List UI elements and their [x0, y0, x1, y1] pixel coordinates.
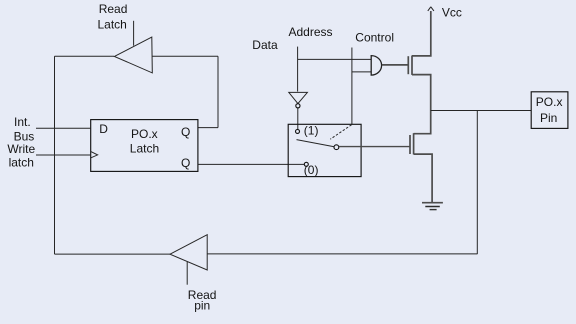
svg-text:latch: latch: [9, 156, 34, 170]
svg-text:Address: Address: [289, 25, 333, 39]
svg-text:Latch: Latch: [130, 142, 159, 156]
svg-text:Vcc: Vcc: [442, 5, 462, 19]
svg-text:(1): (1): [304, 124, 319, 138]
svg-text:Write: Write: [7, 142, 35, 156]
svg-text:PO.x: PO.x: [131, 127, 158, 141]
svg-text:pin: pin: [194, 299, 210, 313]
svg-text:Q: Q: [181, 156, 190, 170]
svg-text:Latch: Latch: [98, 18, 127, 32]
svg-text:Read: Read: [99, 2, 128, 16]
svg-text:Q: Q: [181, 125, 190, 139]
svg-text:PO.x: PO.x: [536, 95, 563, 109]
svg-text:Control: Control: [355, 30, 394, 44]
svg-text:D: D: [99, 122, 108, 136]
svg-text:(0): (0): [304, 163, 319, 177]
svg-text:Pin: Pin: [540, 111, 557, 125]
svg-text:Data: Data: [252, 38, 278, 52]
svg-text:Int.: Int.: [14, 115, 31, 129]
